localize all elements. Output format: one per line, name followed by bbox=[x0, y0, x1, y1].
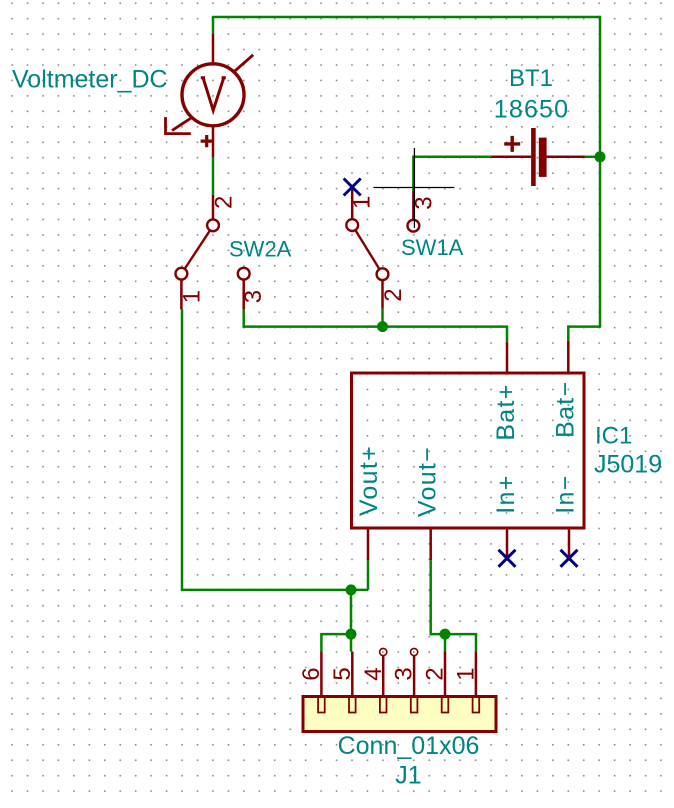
voltmeter Voltmeter_DC bbox=[166, 34, 254, 157]
connector pin sockets bbox=[318, 698, 479, 713]
wire SW1A pin2 stub bbox=[381, 309, 384, 327]
svg-text:4: 4 bbox=[360, 667, 387, 680]
svg-text:SW2A: SW2A bbox=[229, 237, 292, 262]
svg-text:Vout+: Vout+ bbox=[355, 445, 383, 516]
svg-text:SW1A: SW1A bbox=[401, 235, 464, 260]
svg-text:Conn_01x06: Conn_01x06 bbox=[338, 732, 480, 760]
battery BT1 bbox=[491, 128, 585, 186]
wire SW2A pin1 long left drop bbox=[182, 309, 368, 590]
svg-text:Bat+: Bat+ bbox=[492, 383, 520, 440]
no-connect In- bbox=[561, 550, 578, 567]
svg-text:3: 3 bbox=[391, 667, 418, 680]
svg-text:Bat−: Bat− bbox=[551, 381, 579, 438]
svg-text:6: 6 bbox=[298, 667, 325, 680]
svg-text:BT1: BT1 bbox=[509, 65, 553, 92]
svg-text:1: 1 bbox=[453, 667, 480, 680]
junction pin2 column bbox=[440, 629, 451, 640]
svg-text:IC1: IC1 bbox=[595, 423, 632, 450]
svg-text:J1: J1 bbox=[395, 761, 421, 789]
junction SW1A pin2 bus bbox=[377, 321, 388, 332]
wire battery right to junction bbox=[585, 156, 600, 159]
connector J1 bbox=[303, 648, 496, 731]
svg-text:Voltmeter_DC: Voltmeter_DC bbox=[12, 66, 168, 94]
wire SW1A pin3 to battery bbox=[413, 157, 491, 191]
wire pin2 drop bbox=[444, 634, 447, 652]
svg-text:J5019: J5019 bbox=[594, 450, 662, 478]
wire Vout- down bbox=[431, 560, 476, 651]
switch SW2A bbox=[176, 195, 250, 310]
svg-text:1: 1 bbox=[178, 290, 205, 303]
wire right vertical bbox=[599, 16, 602, 328]
wire pin6 branch bbox=[321, 634, 351, 652]
junction battery right bbox=[595, 151, 606, 162]
wire voltmeter bottom to SW2A pin2 bbox=[212, 157, 215, 195]
wire top horizontal bbox=[212, 16, 600, 19]
wire Vout+ stub bbox=[367, 560, 370, 590]
svg-text:5: 5 bbox=[329, 667, 356, 680]
wire Bat- corner bbox=[568, 327, 600, 341]
svg-text:In−: In− bbox=[551, 474, 579, 513]
IC IC1 J5019 bbox=[352, 341, 585, 561]
svg-text:1: 1 bbox=[349, 196, 376, 209]
junction pin5 column bbox=[346, 629, 357, 640]
svg-text:In+: In+ bbox=[492, 474, 520, 513]
switch SW1A bbox=[346, 187, 419, 309]
wire SW2A pin3 to bus row bbox=[244, 309, 507, 342]
svg-text:2: 2 bbox=[210, 196, 237, 209]
svg-text:18650: 18650 bbox=[494, 95, 570, 123]
wire junction drop to pin5 bbox=[350, 590, 353, 652]
svg-text:Vout−: Vout− bbox=[414, 446, 442, 517]
svg-text:2: 2 bbox=[380, 288, 407, 301]
no-connect In+ bbox=[499, 550, 516, 567]
wire voltmeter top drop bbox=[212, 17, 215, 34]
no-connect SW1A pin1 bbox=[344, 179, 361, 196]
svg-text:3: 3 bbox=[240, 290, 267, 303]
cursor crosshair bbox=[373, 148, 454, 228]
junction Vout+ row bbox=[346, 584, 357, 595]
svg-text:2: 2 bbox=[422, 667, 449, 680]
